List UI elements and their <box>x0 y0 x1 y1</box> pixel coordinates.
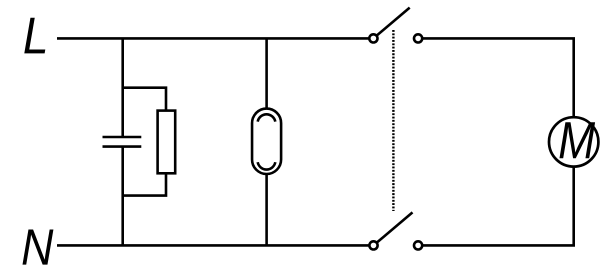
switch S1a lever <box>373 8 409 39</box>
wire lamp lower lead <box>265 174 268 246</box>
switch S1a left contact <box>369 34 377 42</box>
wire resistor branch bottom <box>123 173 166 195</box>
wire motor to bottom rail right <box>422 167 574 246</box>
motor M1 <box>549 117 598 166</box>
resistor R1 <box>158 111 176 174</box>
capacitor C1 <box>103 137 142 147</box>
wire left branch lower lead <box>121 147 124 246</box>
wire left branch upper lead <box>121 38 124 137</box>
mechanical link (dotted) <box>392 30 394 211</box>
glow lamp E1 <box>252 109 281 174</box>
wire top rail left (L to switch) <box>57 37 373 40</box>
node N <box>23 230 54 265</box>
wire bottom rail left (N to switch) <box>57 244 374 247</box>
wire top rail right to motor <box>422 38 574 117</box>
wire lamp upper lead <box>265 38 268 108</box>
switch S1b lever <box>374 212 413 245</box>
switch S1b right contact <box>414 241 422 249</box>
node L <box>24 18 45 54</box>
switch S1a right contact <box>414 34 422 42</box>
switch S1b left contact <box>369 241 377 249</box>
wire resistor branch top <box>123 88 166 111</box>
